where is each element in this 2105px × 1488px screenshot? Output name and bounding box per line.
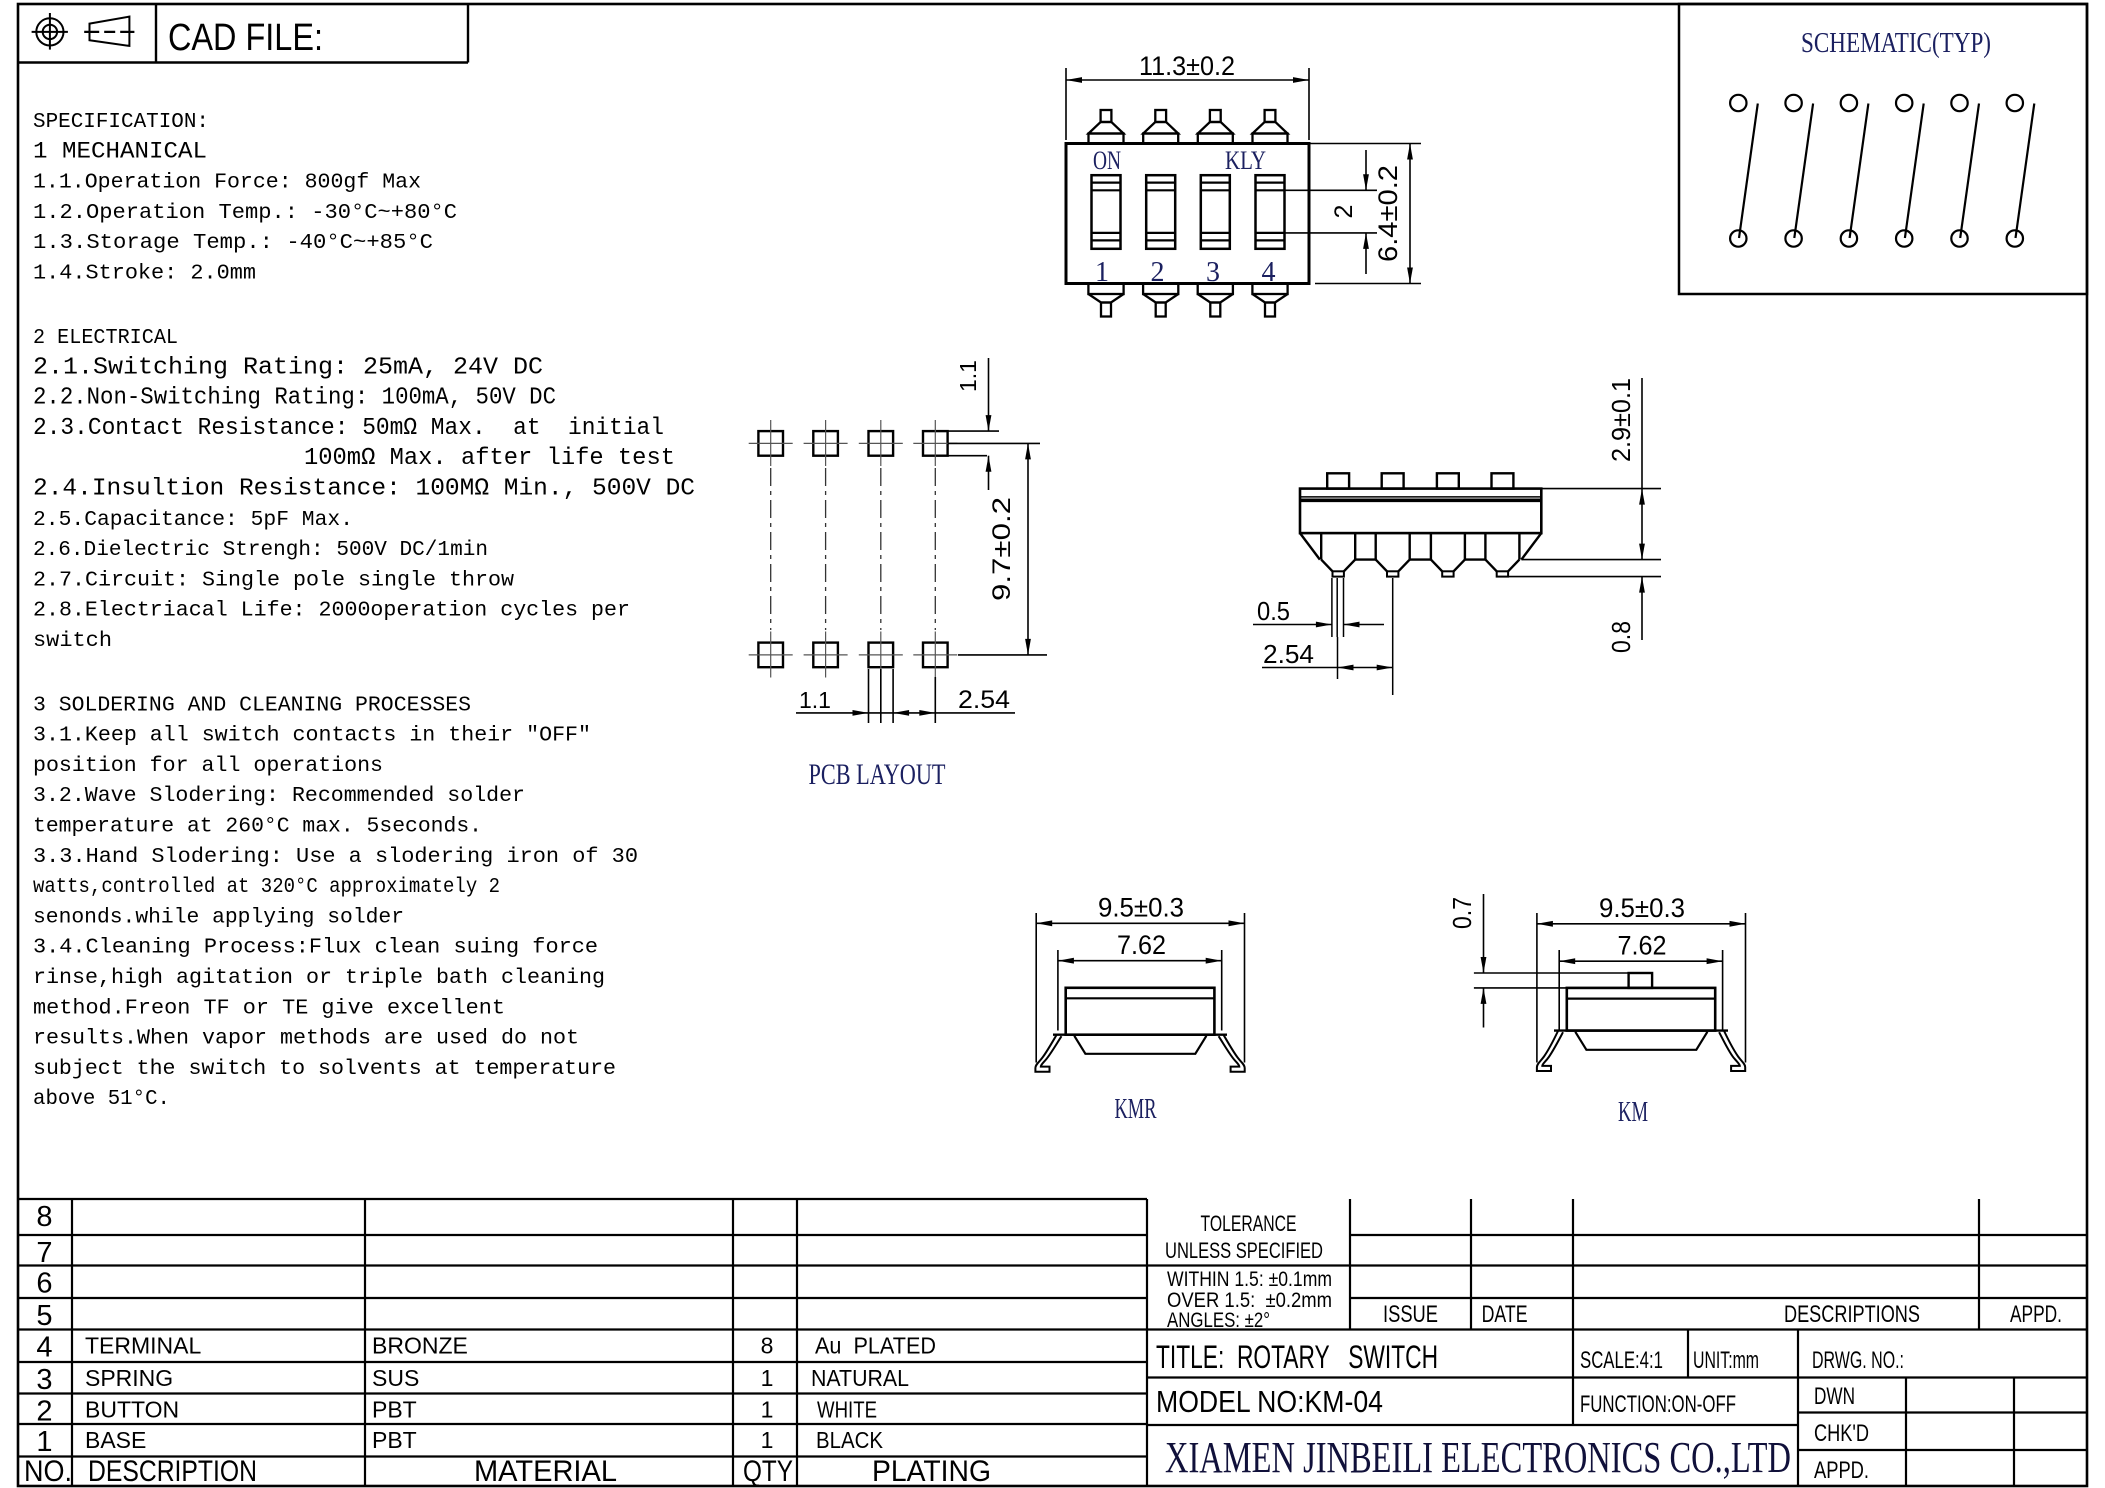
svg-text:SCALE:4:1: SCALE:4:1	[1580, 1347, 1663, 1374]
top-side button knobs	[1101, 110, 1112, 122]
svg-text:1.1.Operation Force: 800gf Max: 1.1.Operation Force: 800gf Max	[33, 172, 421, 195]
svg-text:SUS: SUS	[372, 1365, 419, 1391]
svg-text:2.5.Capacitance: 5pF Max.: 2.5.Capacitance: 5pF Max.	[33, 509, 353, 532]
dimension 2.54 (side)	[1337, 637, 1339, 679]
centerline	[825, 468, 827, 630]
KM dimension 7.62	[1558, 950, 1560, 1031]
svg-text:WHITE: WHITE	[817, 1397, 877, 1423]
svg-text:2.8.Electriacal Life: 2000oper: 2.8.Electriacal Life: 2000operation cycl…	[33, 600, 630, 623]
slider 4	[1256, 175, 1285, 249]
dimension 0.8	[1508, 576, 1661, 578]
svg-text:SPRING: SPRING	[85, 1365, 173, 1391]
svg-text:2.54: 2.54	[1263, 639, 1314, 669]
svg-text:1.1: 1.1	[955, 360, 981, 392]
svg-text:3: 3	[36, 1364, 52, 1396]
svg-text:FUNCTION:ON-OFF: FUNCTION:ON-OFF	[1580, 1391, 1736, 1418]
svg-text:WITHIN 1.5: ±0.1mm: WITHIN 1.5: ±0.1mm	[1167, 1268, 1332, 1291]
KM left leg	[1537, 1031, 1563, 1071]
svg-text:DRWG. NO.:: DRWG. NO.:	[1812, 1347, 1904, 1374]
svg-text:ANGLES: ±2°: ANGLES: ±2°	[1167, 1309, 1270, 1332]
switch symbol 5	[1951, 95, 1967, 111]
dimension 2 (slider travel)	[1285, 189, 1377, 191]
svg-text:SCHEMATIC(TYP): SCHEMATIC(TYP)	[1801, 28, 1991, 59]
pad bottom row 2	[813, 643, 838, 668]
switch symbol 2	[1785, 95, 1801, 111]
CAD FILE title box	[18, 61, 468, 63]
pin 2	[1374, 533, 1376, 560]
KM flange line	[1554, 1029, 1728, 1031]
svg-text:DESCRIPTIONS: DESCRIPTIONS	[1784, 1301, 1920, 1328]
svg-text:9.7±0.2: 9.7±0.2	[988, 497, 1016, 601]
truncated cone projection symbol	[84, 17, 134, 46]
svg-text:2.9±0.1: 2.9±0.1	[1606, 378, 1636, 462]
svg-text:2.6.Dielectric Strengh: 500V D: 2.6.Dielectric Strengh: 500V DC/1min	[33, 539, 488, 562]
pad top row 1	[758, 431, 783, 456]
switch symbol 4	[1896, 95, 1912, 111]
svg-text:method.Freon TF or TE give exc: method.Freon TF or TE give excellent	[33, 997, 505, 1020]
pad bottom row 1	[758, 643, 783, 668]
svg-text:1.4.Stroke: 2.0mm: 1.4.Stroke: 2.0mm	[33, 263, 256, 286]
svg-text:7.62: 7.62	[1117, 930, 1166, 960]
svg-text:TITLE: ROTARY SWITCH: TITLE: ROTARY SWITCH	[1156, 1339, 1438, 1375]
svg-text:3.4.Cleaning Process:Flux clea: 3.4.Cleaning Process:Flux clean suing fo…	[33, 937, 598, 960]
svg-text:3 SOLDERING AND CLEANING PROCE: 3 SOLDERING AND CLEANING PROCESSES	[33, 694, 471, 717]
svg-text:2.7.Circuit: Single pole singl: 2.7.Circuit: Single pole single throw	[33, 569, 514, 592]
pad bottom row 3	[869, 643, 894, 668]
svg-text:PLATING: PLATING	[872, 1455, 991, 1488]
svg-text:watts,controlled at 320°C appr: watts,controlled at 320°C approximately …	[33, 876, 500, 899]
svg-text:2.3.Contact Resistance: 50mΩ M: 2.3.Contact Resistance: 50mΩ Max. at ini…	[33, 415, 664, 442]
slider 2	[1146, 175, 1175, 249]
pad top row 2	[813, 431, 838, 456]
svg-text:senonds.while applying solder: senonds.while applying solder	[33, 906, 404, 929]
svg-text:XIAMEN JINBEILI ELECTRONICS CO: XIAMEN JINBEILI ELECTRONICS CO.,LTD	[1165, 1433, 1791, 1482]
svg-text:PBT: PBT	[372, 1427, 417, 1453]
svg-text:KMR: KMR	[1115, 1094, 1157, 1125]
svg-text:ISSUE: ISSUE	[1383, 1301, 1438, 1328]
svg-text:1: 1	[36, 1426, 52, 1458]
dimension 0.5	[1253, 624, 1332, 626]
svg-text:1.3.Storage Temp.: -40°C~+85°C: 1.3.Storage Temp.: -40°C~+85°C	[33, 232, 433, 255]
svg-text:TERMINAL: TERMINAL	[85, 1333, 202, 1359]
svg-text:1.2.Operation Temp.: -30°C~+80: 1.2.Operation Temp.: -30°C~+80°C	[33, 202, 457, 225]
svg-text:11.3±0.2: 11.3±0.2	[1139, 51, 1235, 81]
svg-text:switch: switch	[33, 630, 112, 653]
svg-text:2.1.Switching Rating: 25mA, 24: 2.1.Switching Rating: 25mA, 24V DC	[33, 354, 543, 381]
dimension 6.4±0.2	[1309, 143, 1421, 145]
svg-text:BRONZE: BRONZE	[372, 1333, 468, 1359]
svg-text:UNIT:mm: UNIT:mm	[1693, 1347, 1759, 1374]
top view: dimension 11.3±0.2	[1065, 68, 1067, 140]
svg-text:above 51°C.: above 51°C.	[33, 1088, 170, 1111]
svg-text:ON: ON	[1093, 146, 1121, 175]
pad top row 3	[869, 431, 894, 456]
title block	[1147, 1199, 2087, 1486]
svg-text:8: 8	[761, 1333, 774, 1359]
slider 1	[1092, 175, 1121, 249]
pad bottom row 4	[923, 643, 948, 668]
svg-text:BASE: BASE	[85, 1427, 146, 1453]
svg-text:DATE: DATE	[1482, 1301, 1528, 1328]
svg-text:QTY: QTY	[743, 1455, 793, 1488]
KM bottom trapezoid	[1575, 1032, 1707, 1050]
third-angle projection symbol (target circle)	[32, 13, 68, 50]
pin 3	[1430, 533, 1432, 560]
centerline	[770, 468, 772, 630]
dimension 1.1 / 2.54 (bottom)	[868, 669, 870, 723]
centerline	[934, 468, 936, 630]
svg-text:temperature at 260°C max. 5sec: temperature at 260°C max. 5seconds.	[33, 816, 482, 839]
svg-text:7.62: 7.62	[1618, 931, 1667, 961]
svg-text:CAD FILE:: CAD FILE:	[168, 17, 323, 59]
svg-text:2.2.Non-Switching Rating: 100m: 2.2.Non-Switching Rating: 100mA, 50V DC	[33, 385, 556, 412]
parts table	[17, 1199, 1147, 1486]
top view: switch body outline	[1066, 144, 1309, 284]
svg-text:6: 6	[36, 1268, 52, 1300]
svg-text:APPD.: APPD.	[2010, 1301, 2062, 1328]
pin 4	[1484, 533, 1486, 560]
dimension 9.7±0.2	[948, 442, 1040, 444]
dimension 1.1 (pad size, top)	[948, 430, 999, 432]
svg-text:9.5±0.3: 9.5±0.3	[1098, 893, 1184, 923]
svg-text:MODEL NO:KM-04: MODEL NO:KM-04	[1156, 1384, 1383, 1419]
svg-text:NATURAL: NATURAL	[811, 1365, 909, 1391]
side view bottom corner chamfers	[1300, 533, 1320, 560]
svg-text:DWN: DWN	[1814, 1383, 1855, 1410]
pad top row 4	[923, 431, 948, 456]
svg-text:subject the switch to solvents: subject the switch to solvents at temper…	[33, 1058, 616, 1081]
KM view dimension 9.5±0.3	[1536, 913, 1538, 1063]
svg-text:9.5±0.3: 9.5±0.3	[1599, 893, 1685, 923]
svg-text:KLY: KLY	[1225, 146, 1266, 175]
svg-text:TOLERANCE: TOLERANCE	[1201, 1211, 1297, 1236]
switch symbol 1	[1730, 95, 1746, 111]
svg-text:5: 5	[36, 1300, 52, 1332]
KM right leg	[1719, 1031, 1745, 1071]
svg-text:3.2.Wave Slodering: Recommende: 3.2.Wave Slodering: Recommended solder	[33, 785, 525, 808]
svg-text:BUTTON: BUTTON	[85, 1397, 179, 1423]
svg-text:MATERIAL: MATERIAL	[474, 1455, 617, 1488]
svg-text:DESCRIPTION: DESCRIPTION	[88, 1455, 257, 1488]
svg-text:1: 1	[761, 1427, 774, 1453]
svg-text:3.1.Keep all switch contacts i: 3.1.Keep all switch contacts in their "O…	[33, 725, 591, 748]
dimension 2.9±0.1	[1541, 488, 1661, 490]
switch symbol 6	[2007, 95, 2023, 111]
svg-text:CHK'D: CHK'D	[1814, 1420, 1869, 1447]
svg-text:2: 2	[36, 1396, 52, 1428]
svg-text:results.When vapor methods are: results.When vapor methods are used do n…	[33, 1028, 579, 1051]
svg-text:8: 8	[36, 1201, 52, 1233]
pin1 lead lines (0.5 dim)	[1331, 578, 1333, 637]
svg-text:1 MECHANICAL: 1 MECHANICAL	[33, 138, 207, 164]
KMR dimension 7.62	[1057, 950, 1059, 1031]
svg-text:2.54: 2.54	[958, 686, 1010, 714]
svg-text:1.1: 1.1	[799, 687, 831, 713]
svg-text:NO.: NO.	[24, 1455, 72, 1488]
svg-text:rinse,high agitation or triple: rinse,high agitation or triple bath clea…	[33, 967, 605, 990]
svg-text:7: 7	[36, 1237, 52, 1269]
svg-text:4: 4	[36, 1332, 52, 1364]
svg-text:100mΩ Max. after life test: 100mΩ Max. after life test	[304, 445, 675, 472]
svg-text:Au PLATED: Au PLATED	[815, 1333, 936, 1359]
svg-text:1: 1	[761, 1397, 774, 1423]
bottom-side button knobs	[1088, 284, 1123, 295]
svg-text:2.4.Insultion Resistance: 100M: 2.4.Insultion Resistance: 100MΩ Min., 50…	[33, 476, 695, 503]
svg-text:PBT: PBT	[372, 1397, 417, 1423]
KMR body	[1066, 988, 1215, 1035]
KMR right leg	[1219, 1035, 1245, 1072]
svg-text:6.4±0.2: 6.4±0.2	[1373, 165, 1403, 262]
svg-text:BLACK: BLACK	[816, 1427, 884, 1453]
svg-text:1: 1	[761, 1365, 774, 1391]
shoulder lines between pins	[1355, 558, 1376, 560]
svg-text:0.5: 0.5	[1257, 596, 1290, 626]
KM top bump	[1629, 973, 1653, 988]
centerline	[880, 468, 882, 630]
svg-text:PCB LAYOUT: PCB LAYOUT	[809, 758, 946, 791]
svg-text:position for all operations: position for all operations	[33, 755, 383, 778]
KMR flange line	[1053, 1033, 1227, 1035]
KMR left leg	[1035, 1035, 1061, 1072]
svg-text:3.3.Hand Slodering: Use a slod: 3.3.Hand Slodering: Use a slodering iron…	[33, 846, 638, 869]
side view body	[1300, 489, 1541, 533]
svg-text:APPD.: APPD.	[1814, 1457, 1869, 1484]
svg-text:UNLESS SPECIFIED: UNLESS SPECIFIED	[1165, 1238, 1323, 1263]
pin 1	[1320, 533, 1322, 560]
schematic box	[1679, 4, 2087, 294]
svg-text:0.7: 0.7	[1447, 897, 1477, 929]
KMR bottom trapezoid	[1074, 1036, 1206, 1054]
switch symbol 3	[1841, 95, 1857, 111]
KM dimension 0.7	[1474, 972, 1629, 974]
KM body	[1567, 988, 1715, 1031]
slider 3	[1201, 175, 1230, 249]
side view top knobs	[1327, 473, 1349, 488]
svg-text:2: 2	[1330, 205, 1358, 219]
svg-text:2 ELECTRICAL: 2 ELECTRICAL	[33, 327, 178, 350]
KMR view dimension 9.5±0.3	[1035, 913, 1037, 1063]
svg-text:KM: KM	[1618, 1097, 1648, 1128]
svg-text:0.8: 0.8	[1606, 621, 1636, 653]
svg-text:SPECIFICATION:: SPECIFICATION:	[33, 111, 209, 134]
